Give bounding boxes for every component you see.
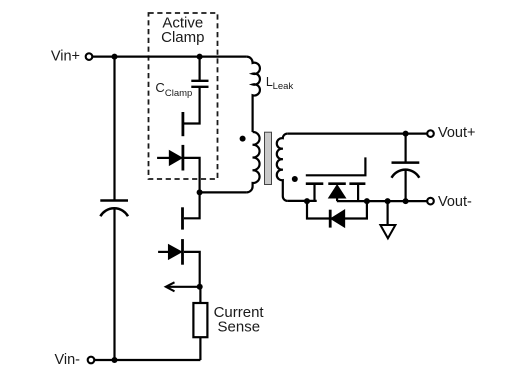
- wire Vin+ top rail: [92, 55, 246, 57]
- wire main diode anode stub: [158, 251, 169, 253]
- sync body diode triangle: [329, 185, 345, 201]
- transformer secondary winding: [277, 134, 288, 201]
- node diode loop right: [364, 198, 370, 204]
- node input cap top: [112, 54, 118, 60]
- terminal Vin+: [86, 53, 93, 60]
- wire Vin- bottom rail: [94, 359, 200, 361]
- sync MOSFET source lead: [357, 184, 359, 201]
- transformer primary winding: [247, 132, 260, 192]
- dashed box Active Clamp: [149, 13, 218, 179]
- wire main FET source lead: [184, 252, 200, 287]
- main body diode triangle: [169, 245, 182, 259]
- wire junction to transformer primary bottom: [200, 191, 247, 193]
- capacitor Cout: [392, 163, 420, 178]
- node output cap top: [403, 131, 409, 137]
- wire clamp FET drain lead: [184, 87, 200, 124]
- parallel diode triangle: [331, 210, 344, 226]
- svg-text:Clamp: Clamp: [161, 29, 204, 46]
- main MOSFET channel bar: [181, 207, 184, 229]
- wire parallel diode loop: [307, 201, 367, 218]
- parallel diode cathode bar: [329, 210, 332, 228]
- capacitor CClamp: [191, 81, 208, 87]
- node input cap bottom: [112, 357, 118, 363]
- svg-text:Vout-: Vout-: [438, 194, 472, 210]
- svg-text:Clamp: Clamp: [165, 88, 192, 99]
- label CClamp: [155, 80, 192, 99]
- terminal Vout+: [427, 130, 434, 137]
- clamp MOSFET channel bar: [181, 112, 184, 136]
- svg-text:Vin-: Vin-: [54, 352, 80, 368]
- wire resistor to Vin- rail: [199, 337, 201, 360]
- node clamp branch top: [197, 54, 203, 60]
- primary polarity dot: [240, 136, 246, 142]
- wire to current sense resistor: [199, 287, 201, 303]
- wire clamp cap lead upper: [199, 57, 201, 81]
- sync MOSFET drain lead: [313, 184, 315, 201]
- wire input cap branch lower: [113, 208, 115, 360]
- terminal Vin-: [88, 357, 95, 364]
- sync MOSFET channel dashes: [306, 182, 366, 185]
- clamp body diode cathode bar: [181, 145, 184, 171]
- node output cap bottom: [403, 198, 409, 204]
- wire clamp FET source lead: [184, 158, 200, 193]
- wire ground branch: [387, 201, 389, 225]
- wire secondary bottom left rail: [287, 200, 316, 202]
- terminal Vout-: [427, 198, 434, 205]
- node primary bottom junction: [197, 189, 203, 195]
- wire secondary top rail to Vout+: [287, 133, 427, 135]
- label Vin-: [54, 352, 80, 368]
- svg-text:Vin+: Vin+: [51, 48, 80, 64]
- main body diode cathode bar: [181, 239, 184, 265]
- node diode loop left: [304, 198, 310, 204]
- node ground branch: [385, 198, 391, 204]
- node current sense junction: [197, 284, 203, 290]
- label Vin+: [51, 48, 80, 64]
- resistor Current Sense: [193, 303, 207, 337]
- wire input cap branch upper: [113, 57, 115, 200]
- wire output cap upper lead: [405, 134, 407, 163]
- sync MOSFET gate plate: [306, 157, 366, 175]
- secondary polarity dot: [292, 176, 298, 182]
- capacitor Cin: [100, 201, 128, 217]
- inductor LLeak winding: [247, 57, 260, 132]
- svg-text:Vout+: Vout+: [438, 125, 476, 141]
- svg-text:Sense: Sense: [218, 318, 261, 335]
- wire clamp diode anode stub: [157, 157, 170, 159]
- label Vout-: [438, 194, 472, 210]
- wire output cap lower lead: [405, 170, 407, 201]
- label Active Clamp: [161, 15, 204, 47]
- current sense arrow: [166, 282, 200, 291]
- label Vout+: [438, 125, 476, 141]
- ground symbol: [380, 225, 395, 238]
- label Current Sense: [214, 304, 265, 336]
- svg-text:C: C: [155, 80, 164, 95]
- label LLeak: [266, 75, 294, 92]
- clamp body diode triangle: [170, 151, 182, 165]
- wire secondary bottom right rail: [337, 200, 427, 202]
- wire main FET drain lead: [184, 192, 200, 218]
- transformer core: [265, 132, 272, 184]
- svg-text:Leak: Leak: [273, 81, 294, 92]
